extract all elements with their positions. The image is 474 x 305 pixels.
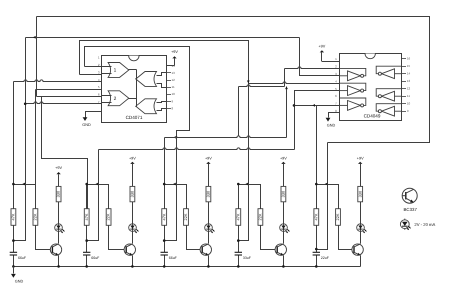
- junction dot stage3 R1/R2 branch: [163, 183, 166, 186]
- svg-text:47K: 47K: [84, 213, 89, 220]
- svg-text:9: 9: [172, 99, 174, 103]
- svg-text:14: 14: [407, 72, 411, 76]
- svg-text:4: 4: [335, 79, 337, 83]
- LED D1: [55, 224, 65, 233]
- resistor R4c 330: [281, 186, 286, 201]
- wire stage1 emitter to rail: [58, 256, 60, 267]
- wire stage4 LED to collector: [283, 232, 285, 244]
- transistor Q5: [352, 244, 363, 256]
- junction dot rail at stage2 emitter: [131, 265, 134, 268]
- svg-text:66uF: 66uF: [18, 256, 26, 260]
- wire stage3 capacitor to rail: [164, 256, 166, 267]
- svg-text:11: 11: [407, 94, 410, 98]
- svg-text:GND: GND: [327, 124, 336, 128]
- wire bus2 left end to stage2 middle: [87, 150, 99, 241]
- wire bus2: [99, 148, 295, 150]
- capacitor C1 66uF: [10, 252, 26, 259]
- wire CD4049 pin 2 net: [285, 67, 340, 69]
- wire stage5 R2 to base: [339, 226, 355, 250]
- resistor R3c 330: [206, 186, 211, 201]
- wire stage1 R2 to CD4071 pin 5: [36, 89, 102, 91]
- wire net-A into CD4071 pin 6: [42, 96, 102, 98]
- ground CD4071: [82, 117, 91, 127]
- wire stage5 R1 span: [316, 185, 318, 209]
- svg-text:47K: 47K: [235, 213, 240, 220]
- resistor R3b 22K: [183, 209, 188, 226]
- junction dot stage4 R1/R2 branch: [237, 183, 240, 186]
- wire bus1 left end down to stage3 R1: [164, 138, 166, 209]
- capacitor C2 66uF: [83, 252, 99, 259]
- wire net-A vertical at x36: [36, 17, 38, 97]
- wire U1 gate4 output stub: [136, 106, 137, 108]
- wire stage5 R1 feed vertical: [316, 106, 318, 209]
- svg-text:CD4049: CD4049: [364, 114, 381, 119]
- svg-text:22K: 22K: [258, 213, 263, 220]
- wire loop1 into CD4071 pin 3: [80, 74, 102, 76]
- svg-text:22K: 22K: [183, 213, 188, 220]
- junction arrow pin7 line to stage5: [312, 104, 315, 107]
- svg-text:12: 12: [172, 78, 176, 82]
- svg-text:330: 330: [130, 190, 135, 197]
- wire stage5 R1 bottom to capacitor: [316, 226, 318, 253]
- svg-text:12: 12: [407, 87, 411, 91]
- junction dot CD4049 pin7 line: [293, 104, 296, 107]
- wire loop2 over CD4071: [85, 47, 190, 138]
- wire U1 gate3 output stub: [136, 78, 137, 80]
- svg-text:22K: 22K: [335, 213, 340, 220]
- wire stage2 LED to collector: [132, 232, 134, 244]
- U2 pin numbers and stubs: [335, 57, 410, 113]
- junction dot stage4 middle join: [237, 239, 240, 242]
- resistor R5a 47K: [313, 209, 318, 226]
- svg-text:2: 2: [114, 96, 117, 102]
- LED D5: [357, 224, 367, 233]
- LED legend 2V - 20 mA: [400, 219, 435, 230]
- junction dot rail at stage5 capacitor: [315, 265, 318, 268]
- wire stage1 branch to R2: [14, 184, 36, 186]
- svg-text:+9V: +9V: [205, 156, 212, 160]
- wire net-A horizontal bus y37: [26, 37, 300, 39]
- wire stage5 capacitor to rail: [316, 256, 318, 267]
- resistor R5b 22K: [335, 209, 340, 226]
- svg-text:330: 330: [56, 190, 61, 197]
- svg-text:13: 13: [172, 71, 176, 75]
- wire stage2 R1 span: [86, 185, 88, 209]
- junction arrow stage4 middle crossing: [245, 183, 248, 186]
- svg-text:16: 16: [407, 57, 411, 61]
- junction dot rail at stage4 capacitor: [237, 265, 240, 268]
- wire U1 gate2 inputs: [102, 95, 112, 97]
- inverter U2a: [339, 75, 348, 77]
- resistor R1a 47K: [11, 209, 16, 226]
- wire net-A top run: [37, 17, 430, 143]
- wire U1 gate4 input jog b: [157, 109, 167, 111]
- wire bus1: [165, 136, 287, 138]
- wire stage3 R1 bottom to capacitor: [164, 226, 166, 253]
- inverter U2f: [395, 110, 402, 112]
- junction dot rail at stage1 emitter: [57, 265, 60, 268]
- capacitor C3 66uF: [161, 252, 177, 259]
- transistor Q4: [275, 244, 286, 256]
- resistor R5c 330: [357, 186, 362, 201]
- svg-text:9: 9: [407, 109, 409, 113]
- wire stage4 branch to R2: [239, 185, 261, 209]
- wire stage3 emitter to rail: [208, 256, 210, 267]
- transistor Q1: [50, 244, 61, 256]
- wire stage4 R1 bottom to capacitor: [238, 226, 240, 253]
- wire U1 gate1 input b: [102, 73, 112, 75]
- junction dot rail at stage4 emitter: [282, 265, 285, 268]
- wire U1 gate1 output stub: [129, 69, 137, 71]
- wire net-A drop to stage5 middle: [317, 143, 328, 250]
- OR gate 2 of U1: [108, 91, 129, 106]
- op-amp U2 CD4049 body: [340, 54, 402, 121]
- wire U1 gate3 input jog b: [157, 84, 167, 88]
- wire stage2 R1 bottom to capacitor: [86, 226, 88, 253]
- junction dot stage5 middle join: [315, 248, 318, 251]
- wire stage4 R1 feed vertical: [238, 87, 240, 136]
- svg-text:2V - 20 mA: 2V - 20 mA: [414, 222, 435, 227]
- wire stage1 resistor to LED: [58, 202, 60, 224]
- resistor R2a 47K: [84, 209, 89, 226]
- wire stage4 resistor to LED: [283, 202, 285, 224]
- junction arrow bus1 riser onto pin2 net: [285, 86, 288, 89]
- svg-text:13: 13: [407, 79, 411, 83]
- svg-text:47K: 47K: [11, 213, 16, 220]
- wire stage1 LED to collector: [58, 232, 60, 244]
- resistor R4a 47K: [235, 209, 240, 226]
- svg-text:GND: GND: [15, 279, 24, 283]
- junction dot stage2 R1/R2 branch: [85, 183, 88, 186]
- wire net-A jog to x41.6: [37, 97, 88, 209]
- wire loop2 into CD4071 pin 2: [85, 66, 102, 68]
- LED D3: [205, 224, 215, 233]
- junction dot stage2 middle join: [85, 239, 88, 242]
- wire U1 gate1 inputs: [102, 66, 112, 68]
- wire stage3 resistor to LED: [208, 202, 210, 224]
- junction dot rail at stage2 capacitor: [85, 265, 88, 268]
- resistor R3a 47K: [161, 209, 166, 226]
- svg-text:47K: 47K: [313, 213, 318, 220]
- svg-text:5: 5: [98, 85, 100, 89]
- wire stage3 R2 to base: [187, 226, 203, 250]
- transistor Q3: [200, 244, 211, 256]
- svg-text:3: 3: [98, 71, 100, 75]
- wire stage5 emitter to rail: [360, 256, 362, 267]
- junction dot stage5 R1/R2 branch: [315, 183, 318, 186]
- power +9V stage3: [205, 156, 212, 186]
- inverter U2c: [339, 104, 348, 106]
- svg-text:10: 10: [172, 92, 176, 96]
- LED D4: [280, 224, 290, 233]
- wire CD4049 pin2 net to stage4 R1: [239, 85, 285, 87]
- wire CD4049 GND hook: [329, 113, 340, 118]
- junction arrow stage3 middle crossing: [173, 183, 176, 186]
- wire U1 gate2 input b: [102, 102, 112, 104]
- junction arrow stage2 middle crossing: [96, 183, 99, 186]
- wire ground rail: [14, 266, 361, 268]
- U1 pin numbers and stubs: [98, 56, 175, 111]
- svg-text:+9V: +9V: [55, 166, 62, 170]
- wire CD4049 pin 2 net drop: [284, 69, 286, 87]
- op-amp U1 CD4071 body: [102, 56, 167, 123]
- resistor R1b 22K: [33, 209, 38, 226]
- wire stage2 capacitor to rail: [86, 256, 88, 267]
- wire stage4 capacitor to rail: [238, 256, 240, 267]
- junction arrow stage5 middle crossing: [325, 183, 328, 186]
- junction dot rail at stage3 emitter: [207, 265, 210, 268]
- svg-text:22K: 22K: [33, 213, 38, 220]
- wire stage4 R1 span: [238, 185, 240, 209]
- power +9V stage4: [280, 156, 287, 186]
- svg-text:+9V: +9V: [171, 50, 178, 54]
- svg-text:66uF: 66uF: [169, 256, 177, 260]
- svg-text:22uF: 22uF: [321, 256, 329, 260]
- svg-text:+9V: +9V: [357, 156, 364, 160]
- resistor R2c 330: [130, 186, 135, 201]
- power +9V stage5: [357, 156, 364, 186]
- svg-text:22K: 22K: [106, 213, 111, 220]
- svg-text:330: 330: [357, 190, 362, 197]
- wire stage2 branch to R2: [87, 185, 109, 209]
- svg-text:330: 330: [281, 190, 286, 197]
- ground CD4049: [326, 118, 336, 128]
- LED D2: [129, 224, 139, 233]
- wire stage2 R2 to base: [109, 226, 127, 250]
- wire stage2 emitter to rail: [132, 256, 134, 267]
- junction dot stage1 middle join: [12, 239, 15, 242]
- wire stage1 R2 vertical: [35, 90, 37, 209]
- junction arrow stage1 middle crossing: [22, 183, 25, 186]
- power +9V CD4049 pin 1: [318, 44, 325, 61]
- svg-text:GND: GND: [82, 123, 91, 127]
- wire stage4 middle vertical: [239, 84, 249, 241]
- junction dot on stage1 middle wire: [24, 103, 27, 106]
- resistor R2b 22K: [106, 209, 111, 226]
- wire stage1 R2 to base: [36, 226, 54, 250]
- wire CD4071 GND hook: [86, 112, 102, 118]
- svg-text:1: 1: [114, 68, 117, 74]
- power +9V stage1: [55, 166, 62, 186]
- OR gate 1 of U1: [108, 63, 129, 78]
- svg-text:8: 8: [172, 106, 174, 110]
- wire rail to GND: [13, 267, 15, 274]
- wire stage5 branch to R2: [317, 185, 339, 209]
- wire stage2 resistor to LED: [132, 202, 134, 224]
- wire stage4 R2 to base: [261, 226, 278, 250]
- wire CD4071 pin 7 to junction on stage1 middle wire: [26, 102, 102, 104]
- wire stage3 branch to R2: [165, 185, 187, 209]
- wire CD4049 pin 7 line: [295, 105, 340, 107]
- svg-text:+9V: +9V: [318, 44, 325, 48]
- wire stage3 LED to collector: [208, 232, 210, 244]
- wire stage3 middle below bus1: [165, 138, 177, 241]
- svg-text:1: 1: [335, 57, 337, 61]
- svg-text:1: 1: [98, 56, 100, 60]
- wire U1 gate3 input jogs: [157, 73, 167, 76]
- svg-text:66uF: 66uF: [91, 256, 99, 260]
- svg-text:14: 14: [172, 64, 176, 68]
- capacitor C5 22uF: [313, 252, 329, 259]
- svg-text:15: 15: [407, 64, 411, 68]
- transistor Q2: [124, 244, 135, 256]
- junction dot rail at GND: [12, 265, 15, 268]
- transistor legend BC337: [402, 188, 417, 212]
- wire U1 gate outputs tie: [136, 70, 138, 107]
- capacitor C4 33uF: [235, 252, 251, 259]
- junction dot rail at stage3 capacitor: [163, 265, 166, 268]
- wire net-A drop to CD4049 pin 3: [300, 38, 340, 76]
- power +9V stage2: [129, 156, 136, 186]
- svg-text:BC337: BC337: [403, 207, 417, 212]
- junction arrow loop1 onto CD4049 pin4 line: [247, 81, 250, 84]
- junction arrow net-A at (34,37): [33, 36, 36, 39]
- svg-text:47K: 47K: [161, 213, 166, 220]
- wire U1 gate2 output stub: [129, 98, 137, 100]
- wire +9V to CD4071 pin 14: [167, 65, 175, 67]
- junction dot stage3 middle join: [163, 239, 166, 242]
- ground rail: [11, 274, 23, 283]
- wire CD4049 pin 5 to bus2: [295, 91, 340, 150]
- inverter U2e: [395, 95, 402, 97]
- resistor R4b 22K: [258, 209, 263, 226]
- power +9V CD4071 pin 14: [171, 50, 178, 66]
- resistor R1c 330: [56, 186, 61, 201]
- junction arrow loop2 onto bus1: [175, 136, 178, 139]
- wire stage1 capacitor to rail: [13, 256, 15, 267]
- wire stage1 middle drop from bus y37: [14, 38, 26, 241]
- wire loop1 over CD4071 to stage4 middle: [80, 41, 249, 87]
- svg-text:+9V: +9V: [280, 156, 287, 160]
- svg-text:10: 10: [407, 102, 411, 106]
- inverter U2b: [339, 90, 348, 92]
- wire +9V to CD4049 pin 1: [322, 61, 340, 63]
- OR gate 3 of U1 (mirrored): [136, 72, 157, 87]
- svg-text:11: 11: [172, 85, 175, 89]
- inverter U2d: [395, 73, 402, 75]
- svg-text:CD4071: CD4071: [126, 115, 143, 120]
- wire bus1 riser: [286, 87, 288, 138]
- svg-text:6: 6: [335, 94, 337, 98]
- svg-text:330: 330: [206, 190, 211, 197]
- wire CD4049 pin 4 line: [249, 82, 340, 84]
- junction dot stage1 R1/R2 branch: [12, 183, 15, 186]
- wire stage4 emitter to rail: [283, 256, 285, 267]
- wire stage1 R1 to CD4071 pin 4: [14, 80, 102, 82]
- wire U1 gate4 input jogs: [157, 102, 167, 103]
- OR gate 4 of U1 (mirrored): [136, 99, 157, 114]
- svg-text:+9V: +9V: [129, 156, 136, 160]
- wire stage3 R1 span: [164, 185, 166, 209]
- wire stage5 LED to collector: [360, 232, 362, 244]
- wire stage1 R1 bottom to capacitor: [13, 226, 15, 253]
- svg-text:33uF: 33uF: [243, 256, 251, 260]
- wire stage1 R1 vertical: [13, 82, 15, 209]
- wire stage5 resistor to LED: [360, 202, 362, 224]
